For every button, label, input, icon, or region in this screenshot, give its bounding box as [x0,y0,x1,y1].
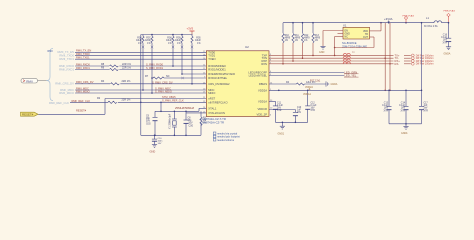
svg-text:12k1 1%: 12k1 1% [306,81,316,84]
svg-text:RXER/RXD4/PHYAD0: RXER/RXD4/PHYAD0 [208,72,235,76]
svg-text:RMII_MDIO: RMII_MDIO [59,91,75,95]
svg-text:22R 1%: 22R 1% [122,99,132,102]
svg-text:22R 1%: 22R 1% [122,67,132,70]
svg-text:NC: NC [166,75,170,78]
svg-text:PWR_FLAG: PWR_FLAG [444,9,456,12]
svg-text:1%: 1% [177,43,180,45]
svg-text:VDD_2P: VDD_2P [257,113,268,117]
svg-text:CRS_DV/MODE2: CRS_DV/MODE2 [208,82,230,86]
svg-text:S_RMII_CRS_DV: S_RMII_CRS_DV [152,80,173,84]
svg-text:VDD1A: VDD1A [258,99,267,103]
svg-text:16V: 16V [297,112,302,114]
svg-text:RXN: RXN [261,62,267,66]
svg-text:X1: X1 [343,23,347,27]
svg-text:+3V3: +3V3 [187,27,194,31]
svg-text:MDIO: MDIO [208,91,215,95]
svg-text:GND1: GND1 [401,132,408,135]
svg-text:RX-: RX- [395,62,400,66]
svg-text:U2: U2 [245,45,249,49]
svg-text:1%: 1% [197,43,200,45]
svg-text:1%: 1% [315,40,318,42]
svg-text:RMII_TX_EN: RMII_TX_EN [76,49,91,53]
svg-text:RXD1/MODE1: RXD1/MODE1 [208,68,226,72]
svg-text:needed volume: needed volume [217,139,235,142]
svg-text:RMII_REF_CLK: RMII_REF_CLK [72,99,91,103]
svg-text:X7R: X7R [401,110,406,112]
svg-text:RMII: RMII [48,50,53,53]
svg-text:1%: 1% [304,40,307,42]
svg-text:RXD0/MODE0: RXD0/MODE0 [208,64,226,68]
svg-text:S_RMII_MDIO: S_RMII_MDIO [155,90,172,94]
svg-text:S_RMII_REF_CLK: S_RMII_REF_CLK [162,99,184,103]
svg-text:RESET#: RESET# [22,112,34,116]
svg-text:S_RMII_RXD0: S_RMII_RXD0 [146,62,164,66]
svg-text:GNDA: GNDA [444,53,451,56]
svg-text:RMII_MDIO: RMII_MDIO [76,89,90,93]
svg-text:RMII_RXD1: RMII_RXD1 [59,67,74,71]
svg-text:GND1: GND1 [278,132,285,135]
svg-text:RESET#: RESET# [76,109,87,113]
svg-text:GNDA: GNDA [331,83,338,86]
svg-text:STM_OB15: STM_OB15 [162,95,176,99]
svg-text:nRST: nRST [208,97,215,101]
svg-text:TXD1: TXD1 [208,54,215,58]
svg-text:RMII_TXD1: RMII_TXD1 [76,56,90,60]
svg-text:X7R: X7R [384,110,389,112]
svg-text:1%: 1% [168,43,171,45]
svg-text:+3V3A: +3V3A [384,17,393,21]
svg-text:GND: GND [150,150,156,154]
svg-text:RMII_REF_CLK: RMII_REF_CLK [49,101,69,105]
svg-text:1%: 1% [147,43,150,45]
svg-text:NC: NC [345,36,349,39]
svg-text:RMII_CRS_DV: RMII_CRS_DV [55,82,74,86]
svg-text:1%: 1% [285,40,288,42]
svg-text:SG-8018CE: SG-8018CE [342,41,357,45]
svg-text:XTAL2/CLKIN: XTAL2/CLKIN [208,111,225,115]
svg-text:PWR_FLAG: PWR_FLAG [403,14,415,17]
svg-text:RMII: RMII [26,79,33,83]
svg-text:S_RMII_RXD1: S_RMII_RXD1 [146,66,164,70]
svg-text:X7R: X7R [424,110,429,112]
svg-text:RMII_TXD0: RMII_TXD0 [76,52,90,56]
svg-text:X7R: X7R [277,110,282,112]
svg-text:VDD1A: VDD1A [303,93,311,96]
svg-text:RMII_RXD0: RMII_RXD0 [76,62,90,66]
svg-text:RXD3/nINTSEL: RXD3/nINTSEL [208,76,227,80]
svg-text:22R 1%: 22R 1% [122,80,132,83]
svg-text:VDD2A: VDD2A [305,86,313,89]
svg-text:1%: 1% [295,40,298,42]
svg-text:25M-TJGA-33B-LME: 25M-TJGA-33B-LME [342,45,367,49]
svg-text:X7R: X7R [443,42,448,44]
svg-text:LAN8742Ai-CZ-TR: LAN8742Ai-CZ-TR [201,120,224,124]
svg-text:VDD2A: VDD2A [258,88,267,92]
svg-text:VDDCR: VDDCR [257,107,267,111]
svg-text:Y1 25MHz 9pF: Y1 25MHz 9pF [170,113,172,129]
svg-text:C0G: C0G [146,123,151,125]
svg-text:OUT: OUT [363,36,369,39]
svg-text:RMII_CRS_DV: RMII_CRS_DV [76,80,94,84]
svg-text:X7R: X7R [311,110,316,112]
svg-text:25MHZ/50MHZ: 25MHZ/50MHZ [175,106,194,110]
svg-text:TXEN: TXEN [208,57,215,61]
svg-text:30 Ohm 2.5A: 30 Ohm 2.5A [424,25,438,28]
svg-text:TXD0: TXD0 [208,50,215,54]
svg-text:LED2/nINTSEL: LED2/nINTSEL [249,74,268,78]
svg-text:16V: 16V [158,143,162,145]
svg-text:C0G: C0G [189,125,194,127]
svg-text:RBIAS: RBIAS [259,82,267,86]
svg-text:1%: 1% [138,43,141,45]
svg-text:GND: GND [319,51,325,54]
svg-text:XTAL1: XTAL1 [208,106,217,110]
svg-text:Diff Pair 100ohm: Diff Pair 100ohm [416,63,434,66]
svg-text:RMII_RXD1: RMII_RXD1 [76,66,90,70]
svg-text:nINT/REFCLKO: nINT/REFCLKO [208,100,227,104]
svg-text:RMII_TXD1: RMII_TXD1 [59,57,74,61]
